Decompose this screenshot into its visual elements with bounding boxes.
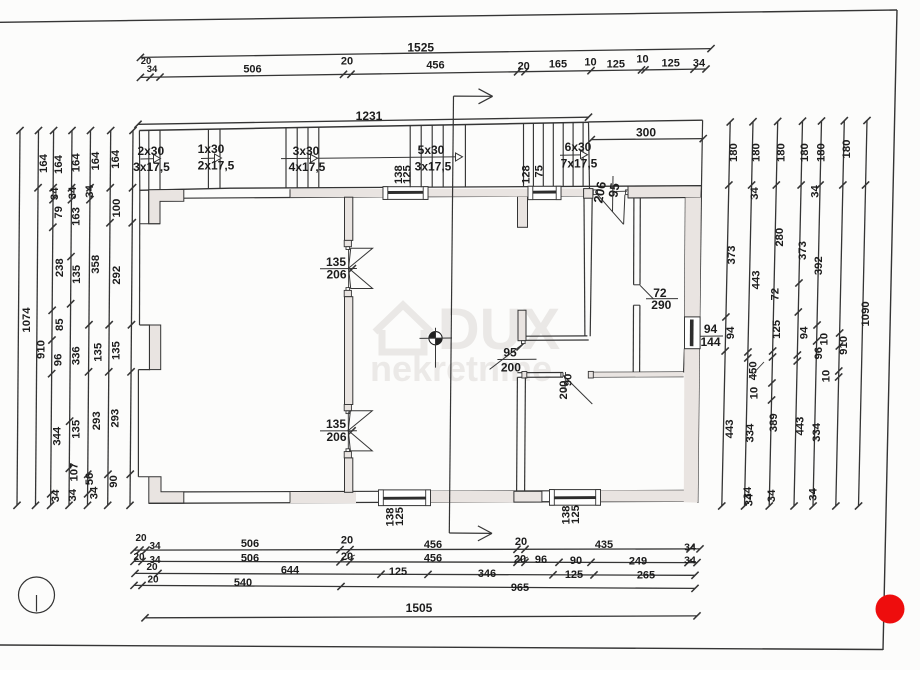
svg-text:1074: 1074 [21, 307, 33, 333]
svg-text:144: 144 [700, 335, 720, 349]
svg-text:10: 10 [636, 54, 648, 66]
svg-text:94: 94 [725, 326, 737, 339]
svg-text:336: 336 [70, 346, 82, 365]
svg-text:95: 95 [503, 346, 517, 360]
svg-text:34: 34 [743, 493, 755, 506]
svg-text:456: 456 [426, 60, 444, 72]
svg-text:79: 79 [53, 206, 65, 219]
svg-text:346: 346 [478, 568, 496, 580]
svg-text:125: 125 [607, 59, 625, 71]
svg-text:293: 293 [91, 411, 103, 430]
svg-text:165: 165 [549, 59, 567, 71]
svg-text:965: 965 [511, 582, 529, 594]
svg-text:435: 435 [595, 539, 613, 551]
svg-text:292: 292 [111, 266, 123, 285]
svg-text:20: 20 [341, 551, 353, 563]
svg-text:443: 443 [750, 270, 762, 289]
svg-text:506: 506 [241, 553, 259, 565]
svg-text:3x17,5: 3x17,5 [415, 159, 452, 173]
svg-text:90: 90 [108, 475, 120, 488]
svg-text:456: 456 [424, 553, 442, 565]
svg-text:910: 910 [35, 340, 47, 359]
svg-text:265: 265 [637, 570, 655, 582]
svg-text:300: 300 [636, 126, 656, 140]
svg-text:125: 125 [662, 58, 680, 70]
svg-text:34: 34 [149, 541, 161, 552]
svg-text:206: 206 [326, 430, 346, 444]
svg-text:5x30: 5x30 [418, 143, 445, 157]
svg-text:7x17,5: 7x17,5 [561, 157, 598, 171]
svg-text:72: 72 [770, 288, 782, 301]
svg-text:164: 164 [53, 154, 65, 174]
svg-text:180: 180 [751, 143, 763, 162]
svg-text:135: 135 [111, 341, 123, 360]
svg-text:34: 34 [147, 64, 158, 75]
svg-text:200: 200 [501, 361, 521, 375]
svg-text:180: 180 [815, 143, 827, 162]
svg-text:20: 20 [514, 554, 526, 566]
svg-text:344: 344 [52, 426, 64, 446]
svg-text:290: 290 [651, 298, 671, 312]
svg-text:20: 20 [146, 562, 158, 573]
svg-text:34: 34 [67, 186, 79, 199]
svg-text:506: 506 [241, 538, 259, 550]
svg-text:125: 125 [570, 505, 582, 524]
svg-text:164: 164 [110, 149, 122, 169]
svg-text:373: 373 [726, 246, 738, 265]
svg-text:107: 107 [69, 463, 81, 482]
svg-text:456: 456 [424, 539, 442, 551]
svg-text:34: 34 [67, 488, 79, 501]
svg-text:20: 20 [518, 61, 530, 73]
svg-text:96: 96 [535, 554, 547, 566]
svg-text:20: 20 [341, 56, 353, 68]
svg-text:20: 20 [147, 575, 159, 586]
svg-text:34: 34 [49, 187, 61, 200]
svg-text:200: 200 [558, 381, 570, 400]
svg-text:249: 249 [629, 556, 647, 568]
svg-text:20: 20 [515, 536, 527, 548]
svg-text:34: 34 [693, 57, 706, 69]
svg-text:540: 540 [234, 577, 252, 589]
svg-text:34: 34 [766, 489, 778, 502]
svg-text:506: 506 [243, 64, 261, 76]
svg-text:34: 34 [808, 488, 820, 501]
svg-text:358: 358 [90, 255, 102, 274]
svg-text:3x30: 3x30 [293, 144, 320, 158]
svg-text:180: 180 [799, 143, 811, 162]
svg-text:10: 10 [819, 333, 831, 346]
svg-text:10: 10 [748, 387, 760, 400]
svg-text:206: 206 [326, 268, 346, 282]
svg-text:128: 128 [520, 165, 532, 184]
svg-text:910: 910 [838, 336, 850, 355]
svg-text:96: 96 [813, 347, 825, 360]
svg-text:180: 180 [728, 143, 740, 162]
svg-text:443: 443 [795, 417, 807, 436]
svg-text:334: 334 [811, 422, 823, 442]
svg-text:280: 280 [774, 228, 786, 247]
svg-text:180: 180 [775, 143, 787, 162]
svg-text:1525: 1525 [407, 41, 434, 55]
svg-text:392: 392 [813, 256, 825, 275]
svg-text:644: 644 [281, 565, 300, 577]
svg-text:34: 34 [89, 486, 101, 499]
svg-text:34: 34 [50, 489, 62, 502]
svg-text:20: 20 [341, 535, 353, 547]
svg-text:34: 34 [684, 555, 696, 567]
svg-text:75: 75 [534, 165, 546, 178]
svg-text:34: 34 [749, 187, 761, 200]
svg-text:163: 163 [71, 207, 83, 226]
svg-text:1231: 1231 [356, 109, 383, 123]
svg-text:1x30: 1x30 [198, 142, 225, 156]
svg-text:125: 125 [402, 165, 414, 184]
svg-text:135: 135 [71, 265, 83, 284]
svg-text:238: 238 [54, 258, 66, 277]
svg-text:164: 164 [71, 153, 83, 173]
svg-text:10: 10 [584, 57, 596, 69]
svg-text:125: 125 [771, 320, 783, 339]
svg-text:20: 20 [135, 533, 147, 544]
svg-text:373: 373 [797, 241, 809, 260]
svg-text:125: 125 [389, 566, 407, 578]
svg-text:334: 334 [745, 423, 757, 443]
svg-text:2x30: 2x30 [137, 144, 164, 158]
svg-text:125: 125 [394, 507, 406, 526]
svg-text:180: 180 [841, 140, 853, 159]
svg-text:135: 135 [70, 420, 82, 439]
svg-text:10: 10 [821, 370, 833, 383]
svg-text:34: 34 [684, 542, 696, 554]
svg-text:96: 96 [52, 354, 64, 367]
svg-text:90: 90 [570, 555, 582, 567]
svg-text:443: 443 [724, 419, 736, 438]
svg-text:56: 56 [84, 473, 96, 486]
svg-text:293: 293 [110, 409, 122, 428]
svg-text:389: 389 [768, 413, 780, 432]
svg-text:125: 125 [565, 569, 583, 581]
svg-text:34: 34 [84, 184, 96, 197]
svg-text:100: 100 [111, 199, 123, 218]
svg-text:6x30: 6x30 [565, 140, 592, 154]
svg-text:2x17,5: 2x17,5 [198, 158, 235, 172]
svg-text:nekretnine: nekretnine [370, 348, 552, 389]
svg-text:3x17,5: 3x17,5 [133, 160, 170, 174]
svg-text:94: 94 [798, 326, 810, 339]
svg-text:1090: 1090 [860, 301, 872, 326]
svg-text:85: 85 [54, 318, 66, 331]
svg-text:1505: 1505 [406, 601, 433, 615]
svg-text:135: 135 [93, 343, 105, 362]
svg-text:34: 34 [810, 185, 822, 198]
svg-text:4x17,5: 4x17,5 [289, 160, 326, 174]
svg-text:20: 20 [133, 552, 145, 563]
svg-text:164: 164 [90, 151, 102, 171]
svg-text:164: 164 [38, 153, 50, 173]
